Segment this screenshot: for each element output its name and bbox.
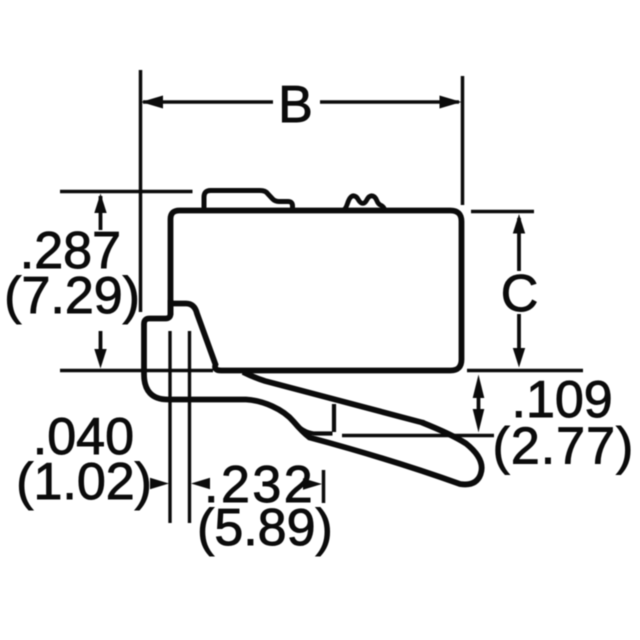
dimension .109: lower extension line [342, 434, 494, 438]
dimension B: right arrowhead [440, 96, 462, 109]
lever top edge [243, 372, 424, 423]
svg-text:(1.02): (1.02) [16, 453, 152, 511]
mounting foot / lever (left bent end, bottom edge to tip) [144, 300, 482, 484]
dimension .287: lower arrow (points down) [99, 331, 103, 352]
dimension B: dimension line left segment [143, 100, 273, 104]
switch body outline [171, 211, 462, 371]
dimension B: right extension line [461, 76, 465, 205]
svg-text:B: B [278, 76, 313, 134]
lever fold: vertical bend line [332, 404, 336, 432]
svg-text:(2.77): (2.77) [493, 418, 635, 476]
dimension .040: left-pointing arrowhead [191, 478, 210, 489]
actuator button bump on top [204, 191, 293, 211]
small wavy vent bump on top [343, 196, 386, 210]
dimension .287: top extension line [60, 190, 193, 194]
dimension .287: bottom extension line [60, 369, 213, 373]
svg-text:C: C [501, 265, 539, 323]
dimension B: left arrowhead [141, 96, 163, 109]
dimension C: lower arrow (points down) [517, 314, 521, 352]
dimension C: top extension line [471, 210, 534, 214]
dimension C: bottom extension line [467, 369, 583, 373]
lever fold: inner dip line [296, 425, 333, 434]
dimension .040: right-pointing arrowhead [150, 478, 169, 489]
dimension .232: right-pointing arrowhead [303, 478, 322, 489]
dimension .109: double arrow [477, 394, 481, 412]
dimension B: left extension line [139, 70, 143, 312]
svg-text:(5.89): (5.89) [197, 499, 333, 557]
dimension .040: right extension line [188, 331, 191, 523]
svg-text:(7.29): (7.29) [4, 267, 140, 325]
dimension .287: upper arrow (points up) [99, 196, 103, 230]
dimension .040: left extension line [168, 331, 171, 523]
dimension C: upper arrow (points up) [517, 218, 521, 271]
dimension B: dimension line right segment [320, 100, 459, 104]
dimension .232: right extension tick [322, 470, 326, 503]
